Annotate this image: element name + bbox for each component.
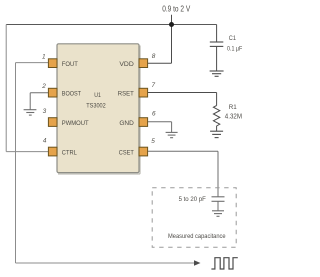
svg-text:4.32M: 4.32M (225, 113, 242, 120)
wire BOOST horizontal (30, 92, 48, 94)
wire FOUT bottom run (16, 262, 195, 264)
svg-text:BOOST: BOOST (62, 90, 81, 97)
wire supply lead (171, 15, 173, 63)
svg-text:CSET: CSET (119, 149, 134, 156)
wire C1 drop (216, 25, 218, 43)
arrowhead output (194, 260, 201, 266)
svg-text:CTRL: CTRL (62, 149, 77, 156)
ground (C1) (210, 71, 224, 76)
pin 4 stub CTRL (48, 147, 57, 156)
wire GND horizontal (148, 121, 172, 123)
svg-text:5: 5 (151, 138, 155, 145)
wire CTRL horizontal (6, 151, 48, 153)
svg-text:C1: C1 (229, 35, 236, 42)
svg-text:4: 4 (43, 138, 47, 145)
junction dot supply node (169, 22, 174, 27)
svg-text:Measured capacitance: Measured capacitance (168, 233, 226, 240)
svg-text:RSET: RSET (118, 90, 134, 97)
ground (measured capacitance) (212, 211, 224, 217)
wire left riser (CTRL to VDD rail) (5, 25, 7, 152)
svg-text:R1: R1 (229, 104, 237, 111)
svg-text:0.9 to 2 V: 0.9 to 2 V (162, 5, 191, 14)
svg-text:2: 2 (41, 83, 46, 90)
wire CSET horizontal (148, 150, 218, 152)
svg-text:U1: U1 (94, 92, 101, 99)
wire FOUT left drop (15, 63, 17, 263)
wire RSET horizontal (148, 92, 217, 94)
square wave output symbol (211, 258, 237, 269)
pin 8 stub VDD (139, 59, 148, 68)
wire BOOST ground lead (29, 93, 31, 110)
wire GND ground lead (171, 122, 173, 133)
pin 2 stub BOOST (48, 88, 57, 97)
svg-text:GND: GND (119, 120, 134, 127)
pin 7 stub RSET (139, 88, 148, 97)
capacitor measured 5 to 20 pF (212, 197, 225, 211)
svg-text:1: 1 (42, 54, 46, 61)
wire VDD top rail (6, 24, 216, 26)
resistor R1 (213, 106, 219, 132)
svg-text:0.1 µF: 0.1 µF (227, 45, 242, 52)
svg-text:FOUT: FOUT (62, 61, 78, 68)
svg-text:TS3002: TS3002 (86, 102, 106, 109)
svg-text:7: 7 (152, 82, 156, 89)
svg-text:VDD: VDD (119, 61, 134, 68)
pin 5 stub CSET (139, 147, 148, 156)
svg-text:3: 3 (43, 108, 47, 115)
ground (BOOST) (24, 110, 37, 115)
pin 3 stub PWMOUT (48, 118, 57, 127)
capacitor C1 (210, 42, 224, 71)
svg-text:5 to 20 pF: 5 to 20 pF (179, 196, 206, 203)
wire pin8 branch (148, 62, 172, 64)
wire CSET drop (217, 151, 219, 197)
wire FOUT horizontal (16, 62, 49, 64)
pin 6 stub GND (139, 118, 148, 127)
svg-text:6: 6 (152, 111, 156, 118)
wire RSET drop (216, 93, 218, 106)
dashed box measured capacitance (152, 188, 236, 247)
svg-text:8: 8 (152, 53, 156, 60)
ground (R1) (210, 131, 223, 137)
ground (GND pin) (166, 132, 178, 137)
IC U1 TS3002 body (57, 44, 139, 173)
svg-text:PWMOUT: PWMOUT (62, 120, 89, 127)
pin 1 stub FOUT (48, 59, 57, 68)
